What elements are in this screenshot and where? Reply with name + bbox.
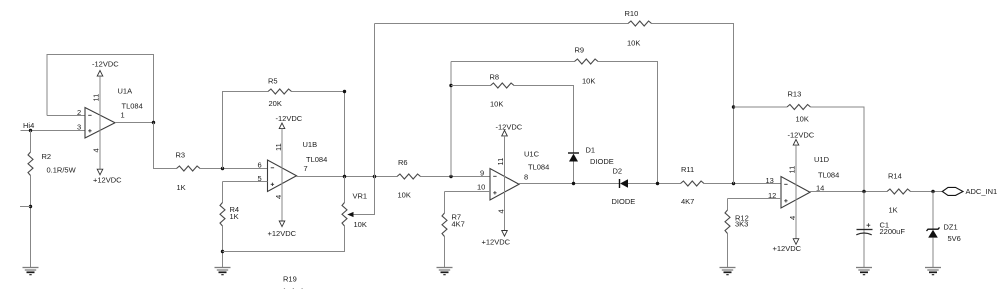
wire pin12 down to R12 bbox=[727, 199, 729, 211]
node R2 tap junction bbox=[29, 205, 32, 208]
resistor R2 bbox=[28, 152, 33, 176]
svg-text:R6: R6 bbox=[398, 158, 408, 167]
wire R6 to pin 9 bbox=[421, 176, 491, 178]
power -12VDC U1D bbox=[788, 131, 815, 146]
svg-text:4: 4 bbox=[92, 148, 101, 152]
svg-text:10K: 10K bbox=[490, 100, 503, 109]
node R10/R13 junction bbox=[732, 105, 735, 108]
wire R13 left bbox=[734, 106, 788, 108]
wire R10 right leg bbox=[652, 24, 734, 184]
node U1C out / D1 anode bbox=[572, 182, 575, 185]
svg-text:D2: D2 bbox=[613, 167, 623, 176]
resistor R14 bbox=[887, 189, 911, 194]
resistor R13 bbox=[787, 105, 811, 110]
svg-text:3: 3 bbox=[77, 123, 81, 132]
svg-text:Hi4: Hi4 bbox=[23, 121, 34, 130]
power +12VDC U1C bbox=[482, 231, 511, 247]
svg-text:1K: 1K bbox=[230, 212, 239, 221]
wire R9 top left bbox=[451, 61, 575, 63]
resistor VR1 bbox=[342, 203, 347, 227]
power +12VDC U1D bbox=[773, 239, 802, 253]
ground under R2 bbox=[23, 268, 39, 275]
resistor R3 bbox=[177, 166, 201, 171]
power -12VDC U1A bbox=[92, 60, 119, 77]
svg-text:DIODE: DIODE bbox=[590, 157, 614, 166]
svg-text:R2: R2 bbox=[42, 152, 52, 161]
node U1B out / VR1 top bbox=[343, 175, 346, 178]
wire pin 5 stub bbox=[223, 181, 268, 183]
svg-text:4: 4 bbox=[274, 195, 283, 199]
svg-text:U1D: U1D bbox=[814, 155, 830, 164]
svg-text:+12VDC: +12VDC bbox=[773, 244, 802, 253]
resistor R9 bbox=[575, 59, 599, 64]
port ADC_IN1 bbox=[942, 187, 963, 195]
wire U1A output bbox=[115, 122, 154, 124]
resistor R4 bbox=[220, 203, 225, 227]
wire R10 left leg bbox=[374, 24, 376, 177]
svg-text:1K: 1K bbox=[177, 183, 186, 192]
svg-text:R19: R19 bbox=[283, 275, 297, 284]
power +12VDC U1B bbox=[268, 221, 297, 238]
svg-text:VR1: VR1 bbox=[353, 192, 368, 201]
wire U1C power rail bbox=[504, 136, 506, 231]
svg-text:DZ1: DZ1 bbox=[944, 223, 958, 232]
wire R4 bottom bbox=[222, 226, 224, 268]
wire R7 to ground bbox=[444, 237, 446, 268]
power -12VDC U1B bbox=[276, 114, 303, 129]
wire C1 branch bbox=[863, 192, 865, 268]
svg-text:TL084: TL084 bbox=[122, 102, 143, 111]
svg-text:8: 8 bbox=[524, 173, 528, 182]
svg-text:10: 10 bbox=[477, 183, 485, 192]
node R3/R5/pin6 junction bbox=[221, 167, 224, 170]
wire D1 to output node bbox=[573, 162, 575, 184]
svg-text:DIODE: DIODE bbox=[612, 197, 636, 206]
svg-text:2: 2 bbox=[77, 108, 81, 117]
ground under R7 bbox=[437, 268, 453, 275]
svg-text:TL084: TL084 bbox=[528, 163, 549, 172]
wire pin10 down to R7 bbox=[444, 192, 446, 214]
wire R8 right to D1 bbox=[514, 86, 574, 153]
power -12VDC U1C bbox=[496, 123, 523, 136]
wire pin 2 stub bbox=[47, 115, 85, 117]
wire pin5 down to R4 bbox=[222, 182, 224, 203]
op-amp U1A bbox=[85, 108, 115, 139]
svg-text:1: 1 bbox=[121, 111, 125, 120]
ground under R4 bbox=[215, 268, 231, 275]
resistor R8 bbox=[491, 83, 515, 88]
svg-text:R10: R10 bbox=[625, 9, 639, 18]
wire D2 to R11 bbox=[628, 183, 681, 185]
svg-text:9: 9 bbox=[480, 169, 484, 178]
svg-text:5V6: 5V6 bbox=[948, 234, 961, 243]
resistor R19 (partial, clipped at bottom) bbox=[282, 289, 306, 294]
svg-text:10K: 10K bbox=[398, 191, 411, 200]
wire R8 left bbox=[451, 85, 491, 87]
wire R11 to pin 13 bbox=[704, 183, 781, 185]
svg-text:13: 13 bbox=[766, 176, 774, 185]
svg-text:10K: 10K bbox=[354, 220, 367, 229]
svg-text:-12VDC: -12VDC bbox=[92, 60, 119, 69]
wire U1C output bbox=[519, 183, 620, 185]
svg-text:1K: 1K bbox=[889, 206, 898, 215]
ground under C1 bbox=[856, 268, 872, 275]
svg-text:6: 6 bbox=[258, 161, 262, 170]
op-amp U1C bbox=[490, 169, 519, 201]
node R5 corner bbox=[343, 90, 346, 93]
wire R13 right leg bbox=[811, 107, 865, 192]
wire U1A feedback loop bbox=[47, 55, 154, 123]
resistor R5 bbox=[268, 89, 292, 94]
wire VR1 bottom leg bbox=[223, 226, 345, 252]
svg-text:ADC_IN1: ADC_IN1 bbox=[966, 187, 998, 196]
zener DZ1 bbox=[927, 227, 940, 237]
wire R9 right leg bbox=[598, 62, 658, 184]
svg-text:0.1R/5W: 0.1R/5W bbox=[47, 166, 77, 175]
wire pin 12 stub bbox=[728, 198, 782, 200]
svg-text:20K: 20K bbox=[269, 99, 282, 108]
diode D2 bbox=[620, 179, 629, 188]
wire U1D output bbox=[810, 191, 887, 193]
wire U1A power rail bbox=[99, 76, 101, 169]
svg-text:-12VDC: -12VDC bbox=[788, 131, 815, 140]
wire R2 top bbox=[30, 131, 32, 153]
wire U1B output row bbox=[297, 176, 398, 178]
svg-text:4K7: 4K7 bbox=[452, 220, 465, 229]
wire VR1 wiper bbox=[354, 177, 375, 215]
svg-text:+12VDC: +12VDC bbox=[93, 176, 122, 185]
wire R3 to pin 6 bbox=[200, 168, 268, 170]
op-amp U1B bbox=[268, 160, 297, 192]
svg-text:U1C: U1C bbox=[524, 150, 540, 159]
wire U1B power rail bbox=[281, 129, 283, 221]
wire R8/R9 left vertical bbox=[450, 62, 452, 177]
svg-text:3K3: 3K3 bbox=[735, 220, 748, 229]
svg-text:11: 11 bbox=[92, 94, 101, 102]
svg-text:R9: R9 bbox=[575, 46, 585, 55]
wire left stub at R2 tap bbox=[20, 206, 31, 208]
capacitor C1 bbox=[856, 223, 872, 235]
svg-text:+12VDC: +12VDC bbox=[268, 229, 297, 238]
resistor R11 bbox=[681, 181, 705, 186]
node Hi4/R2 junction bbox=[29, 129, 32, 132]
svg-text:D1: D1 bbox=[586, 146, 596, 155]
wire R10 top left bbox=[375, 23, 629, 25]
node R10/R11/pin13 junction bbox=[732, 182, 735, 185]
wire R12 to ground bbox=[727, 234, 729, 268]
node R8/R9 left join bbox=[449, 84, 452, 87]
svg-text:4K7: 4K7 bbox=[681, 197, 694, 206]
resistor R12 bbox=[725, 210, 730, 234]
svg-text:R11: R11 bbox=[681, 165, 694, 174]
resistor R7 bbox=[442, 213, 447, 237]
svg-text:2200uF: 2200uF bbox=[880, 227, 906, 236]
svg-text:U1A: U1A bbox=[118, 87, 133, 96]
svg-text:11: 11 bbox=[274, 143, 283, 151]
wire R2 bottom to ground bbox=[30, 176, 32, 268]
svg-text:11: 11 bbox=[496, 158, 505, 166]
wire R5 left leg bbox=[223, 92, 269, 169]
svg-text:R3: R3 bbox=[176, 151, 186, 160]
svg-text:-12VDC: -12VDC bbox=[496, 123, 523, 132]
op-amp U1D bbox=[781, 177, 810, 209]
svg-text:TL084: TL084 bbox=[818, 171, 839, 180]
resistor R10 bbox=[628, 21, 652, 26]
svg-text:10K: 10K bbox=[796, 115, 809, 124]
wire pin 10 stub bbox=[445, 191, 491, 193]
svg-text:U1B: U1B bbox=[303, 140, 318, 149]
wire R14 to port bbox=[911, 191, 943, 193]
wire R5 right leg bbox=[292, 92, 345, 177]
ground under DZ1 bbox=[925, 268, 941, 275]
svg-text:R13: R13 bbox=[788, 90, 802, 99]
diode D1 bbox=[568, 153, 579, 162]
svg-text:-12VDC: -12VDC bbox=[276, 114, 303, 123]
node R9/D2/R11 junction bbox=[656, 182, 659, 185]
wire VR1 top leg bbox=[344, 177, 346, 203]
node U1D out / R13 / C1 bbox=[862, 190, 865, 193]
wire DZ1 to ground bbox=[932, 238, 934, 268]
svg-text:R5: R5 bbox=[268, 77, 278, 86]
wire DZ1 branch bbox=[932, 192, 934, 230]
wire Hi4 input to pin 3 bbox=[21, 130, 86, 132]
svg-text:R14: R14 bbox=[888, 172, 902, 181]
svg-text:+12VDC: +12VDC bbox=[482, 238, 511, 247]
svg-text:7: 7 bbox=[304, 164, 308, 173]
node U1A output junction bbox=[152, 121, 155, 124]
svg-text:TL084: TL084 bbox=[306, 155, 327, 164]
wire U1A output down to R3 bbox=[154, 123, 177, 169]
power +12VDC U1A bbox=[93, 169, 122, 184]
svg-text:11: 11 bbox=[788, 166, 797, 174]
svg-text:10K: 10K bbox=[582, 77, 595, 86]
node R6/R8/pin9 junction bbox=[449, 175, 452, 178]
node ADC_IN1 junction bbox=[931, 190, 934, 193]
ground under R12 bbox=[720, 268, 736, 275]
resistor R6 bbox=[397, 174, 421, 179]
node R4/VR1 bottom junction bbox=[221, 250, 224, 253]
svg-text:R8: R8 bbox=[490, 73, 500, 82]
wire U1D power rail bbox=[795, 145, 797, 239]
trimmer VR1 wiper arrow bbox=[347, 212, 353, 217]
node U1B out / wiper branch bbox=[373, 175, 376, 178]
svg-text:10K: 10K bbox=[627, 39, 640, 48]
